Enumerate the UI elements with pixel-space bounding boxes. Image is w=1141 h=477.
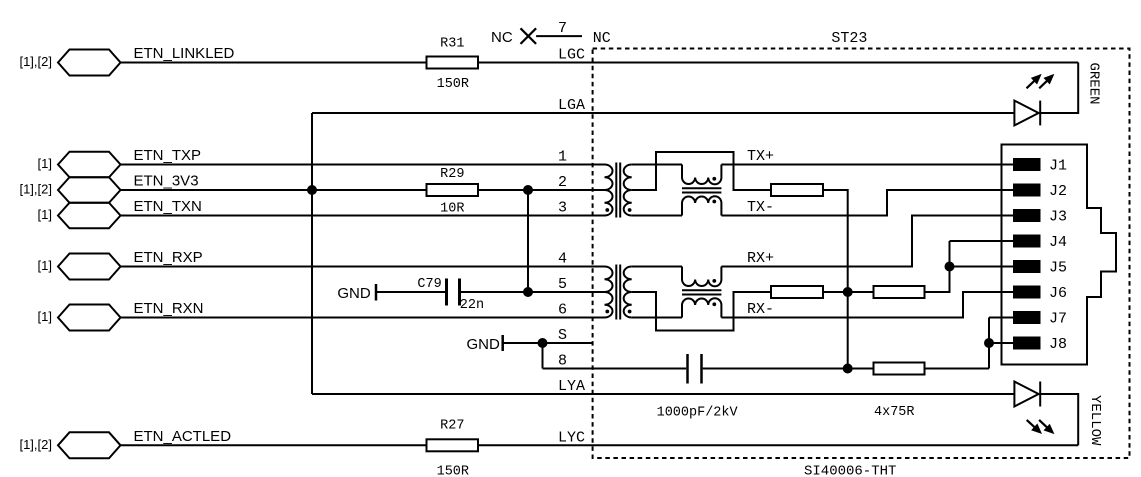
wire T1 secondary bottom to choke L1 [632,215,682,217]
svg-text:ETN_TXN: ETN_TXN [134,198,202,215]
svg-text:R27: R27 [440,418,464,433]
wire ETN_RXP to transformer pin 4 [121,266,605,268]
svg-text:LGC: LGC [558,47,585,64]
wire GND2 junction down to pin 8 row [542,343,544,369]
RJ45 jack outline [1002,145,1117,365]
wire GND bar to C79 [376,291,445,293]
junction dot GND S/8 [538,338,548,348]
choke L2 bottom winding [682,298,721,317]
choke L1 top phase dot [712,177,716,181]
svg-text:RX-: RX- [747,301,774,318]
svg-text:TX+: TX+ [747,148,774,165]
jack pad J6 [1014,287,1040,298]
svg-text:[1]: [1] [38,309,52,324]
svg-text:ETN_ACTLED: ETN_ACTLED [134,428,232,445]
svg-text:3: 3 [558,200,567,217]
wire R31 to LED vertical (LGC net) [478,62,1078,64]
svg-text:R29: R29 [440,167,464,182]
wire T2 center tap bypass under choke [632,292,771,331]
svg-text:ST23: ST23 [831,30,867,47]
svg-text:J7: J7 [1049,311,1067,328]
sheet connector hexagon ETN_ACTLED [58,432,121,458]
svg-text:NC: NC [593,30,611,47]
jack pad J4 [1014,236,1040,247]
svg-text:J5: J5 [1049,260,1067,277]
sheet connector hexagon ETN_RXP [58,254,121,280]
ground symbol bar at C79 [375,284,378,301]
wire 75R1 to common vertical [823,190,848,369]
svg-text:[1],[2]: [1],[2] [19,437,52,452]
yellow LED emission arrow 1 [1027,420,1041,433]
transformer T2 primary winding (pins 4-6) [605,267,613,318]
jack pad J7 [1014,312,1040,323]
wire no-connect stub pin 7 [536,35,582,37]
choke L1 core [682,188,721,192]
wire 75R2 to common vertical [823,291,874,293]
svg-text:J1: J1 [1049,158,1067,175]
svg-text:R31: R31 [440,37,464,52]
wire ETN_ACTLED hexagon to R27 [121,444,427,446]
wire GND2 bar to pin S [503,342,593,344]
sheet connector hexagon ETN_LINKLED [58,50,121,76]
svg-text:J8: J8 [1049,336,1067,353]
resistor 75R no.3 body (J4/J5 pair) [874,286,925,298]
wire J5 [950,266,1015,268]
svg-text:J4: J4 [1049,234,1067,251]
wire ETN_3V3 hexagon to R29 [121,189,427,191]
yellow LED emission arrow 2 [1039,420,1053,433]
svg-text:RX+: RX+ [747,250,774,267]
svg-text:1: 1 [558,149,567,166]
wire RX+ choke to J3 [721,216,1014,267]
svg-text:150R: 150R [437,464,469,477]
transformer T1 core [616,163,620,218]
jack pad J3 [1014,210,1040,221]
wire TX- choke to J2 [721,190,1014,216]
resistor 75R no.2 body (RX center tap) [771,286,823,298]
green LED cathode bar [1039,101,1041,126]
junction dot J7/J8 tie [984,338,994,348]
wire TX+ choke to J1 [721,164,1014,166]
transformer T1 primary winding (pins 1-3) [605,165,613,216]
wire pin 8 row to 1000pF cap [543,368,687,370]
yellow LED triangle [1014,382,1038,407]
wire R29 to transformer pin 2 [478,189,605,191]
svg-text:ETN_TXP: ETN_TXP [134,147,202,164]
transformer T2 core [616,265,620,320]
svg-text:22n: 22n [460,298,484,313]
svg-text:4: 4 [558,251,567,268]
svg-text:1000pF/2kV: 1000pF/2kV [657,405,739,420]
wire J7 [989,317,1014,319]
svg-text:NC: NC [491,29,513,46]
transformer T2 secondary phase dot [628,310,632,314]
wire T1 center tap bypass over choke [632,152,771,190]
wire green LED cathode to LGC vertical [1040,63,1078,114]
choke L1 bottom winding [682,196,721,215]
svg-text:YELLOW: YELLOW [1087,395,1103,446]
svg-text:ETN_LINKLED: ETN_LINKLED [134,45,235,62]
wire yellow LED cathode to LYC vertical [1040,394,1078,445]
sheet connector hexagon ETN_3V3 [58,177,121,203]
wire RX- choke to J6 [721,292,1014,318]
svg-text:GND: GND [337,285,371,302]
svg-text:SI40006-THT: SI40006-THT [804,463,896,477]
wire ETN_TXP to transformer pin 1 [121,164,605,166]
svg-text:[1]: [1] [38,207,52,222]
svg-text:S: S [558,327,567,344]
svg-text:LYC: LYC [558,429,585,446]
svg-text:J3: J3 [1049,209,1067,226]
svg-text:C79: C79 [417,277,441,292]
resistor R29 body [427,184,479,196]
jack pad J1 [1014,159,1040,170]
no-connect cross pin 7 [521,28,537,44]
resistor R27 body [427,439,479,451]
IC ST23 dashed boundary box [593,49,1130,459]
resistor 75R no.1 body (TX center tap) [771,184,823,196]
svg-text:TX-: TX- [747,199,774,216]
svg-text:ETN_3V3: ETN_3V3 [134,173,199,190]
choke L2 top phase dot [712,279,716,283]
svg-text:LGA: LGA [558,97,585,114]
capacitor C79 plates [447,279,460,306]
transformer T2 secondary winding [624,267,632,318]
junction dot R29 output [523,185,533,195]
svg-text:J6: J6 [1049,285,1067,302]
choke L1 bottom phase dot [712,200,716,204]
wire R29 node vertical to pin 5 node [527,190,529,292]
capacitor 1000pF/2kV plates [688,354,702,384]
transformer T2 primary phase dot [605,310,609,314]
yellow LED cathode bar [1039,382,1041,407]
wire 75R4 to J7/J8 vertical [925,368,990,370]
wire ETN_TXN to transformer pin 3 [121,215,605,217]
jack pad J2 [1014,185,1040,196]
resistor R31 body [427,57,479,69]
svg-text:ETN_RXP: ETN_RXP [134,249,203,266]
junction dot pin 5 / C79 [523,287,533,297]
svg-text:J2: J2 [1049,183,1067,200]
junction dot common node bottom [843,364,853,374]
svg-text:6: 6 [558,302,567,319]
choke L2 core [682,290,721,294]
svg-text:LYA: LYA [558,378,585,395]
svg-text:2: 2 [558,174,567,191]
sheet connector hexagon ETN_TXN [58,203,121,229]
green LED emission arrow 2 [1039,75,1053,89]
svg-text:5: 5 [558,276,567,293]
green LED triangle [1014,101,1038,126]
sheet connector hexagon ETN_RXN [58,305,121,331]
transformer T1 secondary winding [624,165,632,216]
wire LYA row to yellow LED anode [312,393,1014,395]
choke L2 bottom phase dot [712,302,716,306]
sheet connector hexagon ETN_TXP [58,152,121,178]
svg-text:[1]: [1] [38,258,52,273]
svg-text:ETN_RXN: ETN_RXN [134,300,204,317]
wire J8 [989,342,1014,344]
svg-text:[1],[2]: [1],[2] [19,182,52,197]
jack pad J5 [1014,261,1040,272]
wire T2 secondary bottom to choke L2 [632,317,682,319]
wire ETN_RXN to transformer pin 6 [121,317,605,319]
wire 75R3 to J4/J5 node [925,241,950,292]
ground symbol bar at pin S [501,335,504,351]
svg-text:4x75R: 4x75R [874,405,915,420]
transformer T1 secondary phase dot [628,208,632,212]
resistor 75R no.4 body (J7/J8 pair) [874,363,925,375]
choke L1 top winding [682,165,721,185]
svg-text:150R: 150R [437,77,469,92]
svg-text:[1],[2]: [1],[2] [19,54,52,69]
svg-text:[1]: [1] [38,156,52,171]
wire J4 [950,240,1015,242]
svg-text:7: 7 [558,20,567,37]
wire ETN_LINKLED hexagon to R31 [121,62,427,64]
junction dot J4/J5 tie [945,262,955,272]
choke L2 top winding [682,267,721,287]
wire T2 secondary top to choke L2 [632,266,682,268]
jack pad J8 [1014,338,1040,349]
svg-text:GREEN: GREEN [1086,63,1102,105]
wire J7/J8 vertical [988,318,990,369]
wire 1000pF cap to common node [703,368,874,370]
svg-text:8: 8 [558,353,567,370]
wire R27 to LED vertical (LYC net) [478,444,1078,446]
svg-text:GND: GND [467,336,501,353]
svg-text:10R: 10R [440,202,464,217]
wire 3V3 vertical bus to LED anodes [311,113,313,394]
junction dot common node RX CT [843,287,853,297]
green LED emission arrow 1 [1027,75,1041,89]
wire LGA row to green LED anode [312,112,1014,114]
transformer T1 primary phase dot [605,208,609,212]
wire C79 to transformer pin 5 [461,291,605,293]
wire T1 secondary top to choke L1 [632,164,682,166]
junction dot 3V3 bus [307,185,317,195]
